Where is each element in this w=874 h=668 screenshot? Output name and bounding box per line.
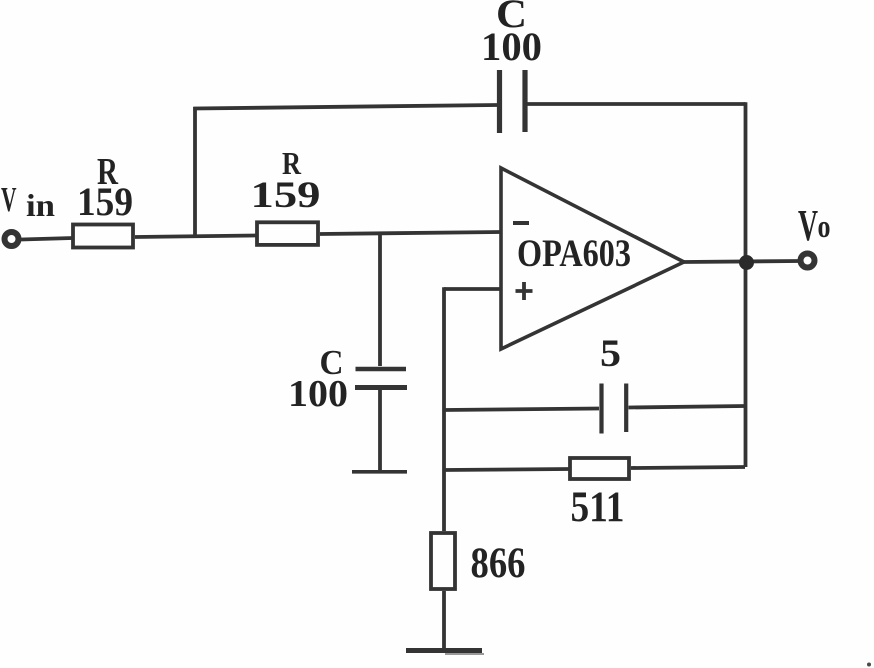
svg-text:OPA603: OPA603 — [517, 232, 631, 275]
capacitor C2 (C 100 shunt) — [355, 369, 407, 388]
svg-text:o: o — [818, 208, 831, 244]
wire op-amp output — [684, 261, 800, 262]
svg-text:159: 159 — [77, 179, 133, 224]
ground — [406, 648, 482, 653]
capacitor C1 (C 100 top) — [500, 70, 526, 133]
svg-text:in: in — [26, 187, 55, 223]
wire input to R1 — [21, 238, 73, 240]
resistor R1 — [73, 225, 133, 248]
wire top feedback right — [527, 102, 746, 106]
wire node B vertical to C2 — [378, 235, 382, 366]
wire C2 lower lead — [378, 390, 382, 470]
output terminal Vo — [801, 254, 815, 268]
C2 end bar terminal — [352, 470, 407, 474]
svg-text:100: 100 — [481, 24, 542, 69]
wire top feedback left — [193, 105, 497, 109]
ground smudge mark — [445, 653, 484, 655]
label Vo — [798, 201, 831, 250]
wire cap C3 left — [444, 409, 599, 411]
resistor R4 (866) — [431, 533, 455, 589]
svg-text:866: 866 — [471, 540, 526, 587]
wire R4 to ground — [442, 591, 446, 650]
label Vin — [1, 180, 55, 223]
wire cap C3 right — [629, 406, 746, 408]
resistor R2 — [257, 222, 318, 245]
svg-text:V: V — [1, 180, 17, 219]
resistor R3 (511) — [570, 458, 629, 479]
wire non-inverting input horizontal — [444, 287, 501, 291]
capacitor C3 (5) — [602, 384, 627, 434]
wire R2 to op-amp inverting input — [320, 232, 501, 234]
wire R3 left — [444, 469, 570, 470]
op-amp non-inverting pin mark — [516, 282, 533, 300]
svg-text:159: 159 — [251, 175, 321, 216]
junction dot output node — [739, 255, 754, 270]
svg-text:V: V — [798, 201, 818, 250]
speck bottom right — [867, 663, 871, 667]
svg-text:5: 5 — [600, 332, 621, 375]
input terminal Vin — [5, 232, 19, 246]
wire R3 right — [631, 467, 745, 468]
svg-text:511: 511 — [571, 484, 625, 531]
op-amp U1 OPA603 — [501, 168, 684, 349]
op-amp inverting pin mark — [513, 221, 529, 225]
wire left vertical (non-inverting net) — [442, 287, 446, 531]
svg-text:100: 100 — [288, 373, 348, 415]
wire right vertical feedback — [744, 102, 748, 467]
wire R1 to R2 through node A — [135, 236, 257, 238]
node A junction vertical wire — [193, 107, 197, 237]
